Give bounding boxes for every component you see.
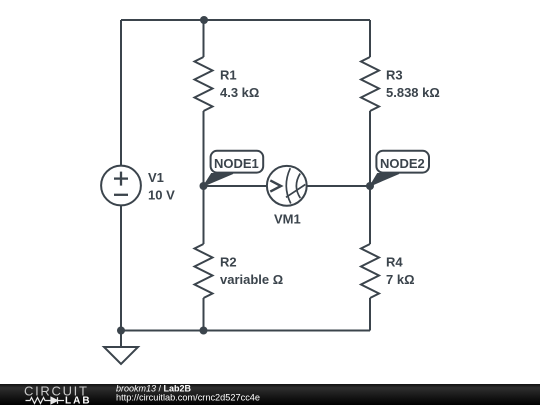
node label NODE1 callout: [204, 151, 264, 186]
svg-text:variable Ω: variable Ω: [220, 272, 283, 287]
node junction dot bottom left: [117, 327, 125, 335]
resistor R1: [195, 57, 213, 111]
ground: [104, 347, 138, 364]
wire NODE1 down to R2: [203, 186, 205, 244]
wire NODE2 down to R4: [369, 186, 371, 244]
wire mid branch top (to R1): [203, 20, 205, 57]
svg-text:7 kΩ: 7 kΩ: [386, 272, 415, 287]
svg-text:4.3 kΩ: 4.3 kΩ: [220, 85, 259, 100]
wire left branch V1 bottom: [120, 206, 122, 347]
node junction dot bottom mid: [200, 327, 208, 335]
svg-text:R2: R2: [220, 255, 237, 270]
svg-text:5.838 kΩ: 5.838 kΩ: [386, 85, 440, 100]
node label NODE2 callout: [370, 151, 429, 186]
svg-text:NODE2: NODE2: [380, 156, 425, 171]
footer bar: [0, 384, 540, 405]
footer text: [116, 384, 260, 403]
wire bottom horizontal: [121, 330, 370, 332]
node junction dot top: [200, 16, 208, 24]
resistor R4: [361, 244, 379, 298]
svg-text:R4: R4: [386, 255, 403, 270]
voltmeter VM1: [267, 166, 307, 206]
wire R2 to bottom: [203, 298, 205, 331]
wire VM1 to NODE2: [308, 185, 371, 187]
svg-text:R1: R1: [220, 68, 237, 83]
svg-text:V1: V1: [148, 170, 164, 185]
wire top horizontal: [121, 19, 370, 21]
resistor R3: [361, 57, 379, 111]
svg-text:R3: R3: [386, 68, 403, 83]
CircuitLab logo resistor-diode glyph: [26, 397, 65, 404]
voltage source V1: [101, 166, 141, 206]
CircuitLab logo wordmark: [24, 384, 92, 405]
wire R3 to NODE2: [369, 111, 371, 186]
svg-text:NODE1: NODE1: [214, 156, 259, 171]
svg-text:10 V: 10 V: [148, 188, 175, 203]
wire R4 to bottom: [369, 298, 371, 331]
wire right branch top (to R3): [369, 20, 371, 57]
node junction dot NODE1: [200, 182, 208, 190]
node junction dot NODE2: [366, 182, 374, 190]
wire NODE1 to VM1: [204, 185, 267, 187]
wire R1 to NODE1: [203, 111, 205, 186]
resistor R2: [195, 244, 213, 298]
svg-text:LAB: LAB: [65, 396, 92, 405]
svg-text:http://circuitlab.com/crnc2d52: http://circuitlab.com/crnc2d527cc4e: [116, 393, 260, 403]
svg-text:VM1: VM1: [274, 212, 301, 227]
wire left branch V1 top: [120, 20, 122, 165]
